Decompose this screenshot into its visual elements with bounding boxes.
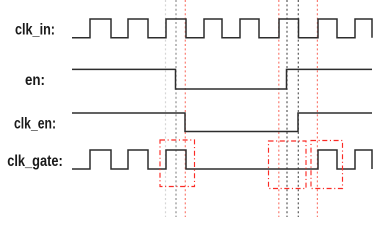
wire en waveform	[72, 69, 372, 89]
highlight box 2 around gated-off region	[269, 141, 307, 189]
svg-text:clk_en:: clk_en:	[14, 116, 56, 133]
highlight box 3 around first resumed clk_gate pulse	[311, 141, 343, 189]
dashed marker line at clk_in rising edge x=165.5 (light gray)	[165, 0, 167, 217]
dashed marker line at clk_in rising edge x=317.4 (salmon red)	[316, 0, 318, 217]
dashed marker line at clk_en falling edge x=185.3 (salmon red)	[184, 0, 186, 217]
dashed marker line at en rising edge x=287 (dark gray)	[286, 0, 288, 217]
wire clk_en waveform	[72, 113, 372, 132]
wire clk_in waveform	[72, 19, 372, 38]
dashed marker line at clk_in rising edge x=278.8 (salmon red)	[278, 0, 280, 217]
svg-text:clk_in:: clk_in:	[15, 22, 55, 39]
svg-text:clk_gate:: clk_gate:	[7, 153, 63, 170]
svg-text:en:: en:	[25, 72, 45, 89]
dashed marker line at clk_en rising edge x=298.3 (dark gray)	[297, 0, 299, 217]
wire clk_gate waveform	[72, 150, 372, 169]
highlight box 1 around last passed clk_gate pulse	[160, 140, 195, 187]
dashed marker line at en falling edge x=176 (gray)	[175, 0, 177, 217]
